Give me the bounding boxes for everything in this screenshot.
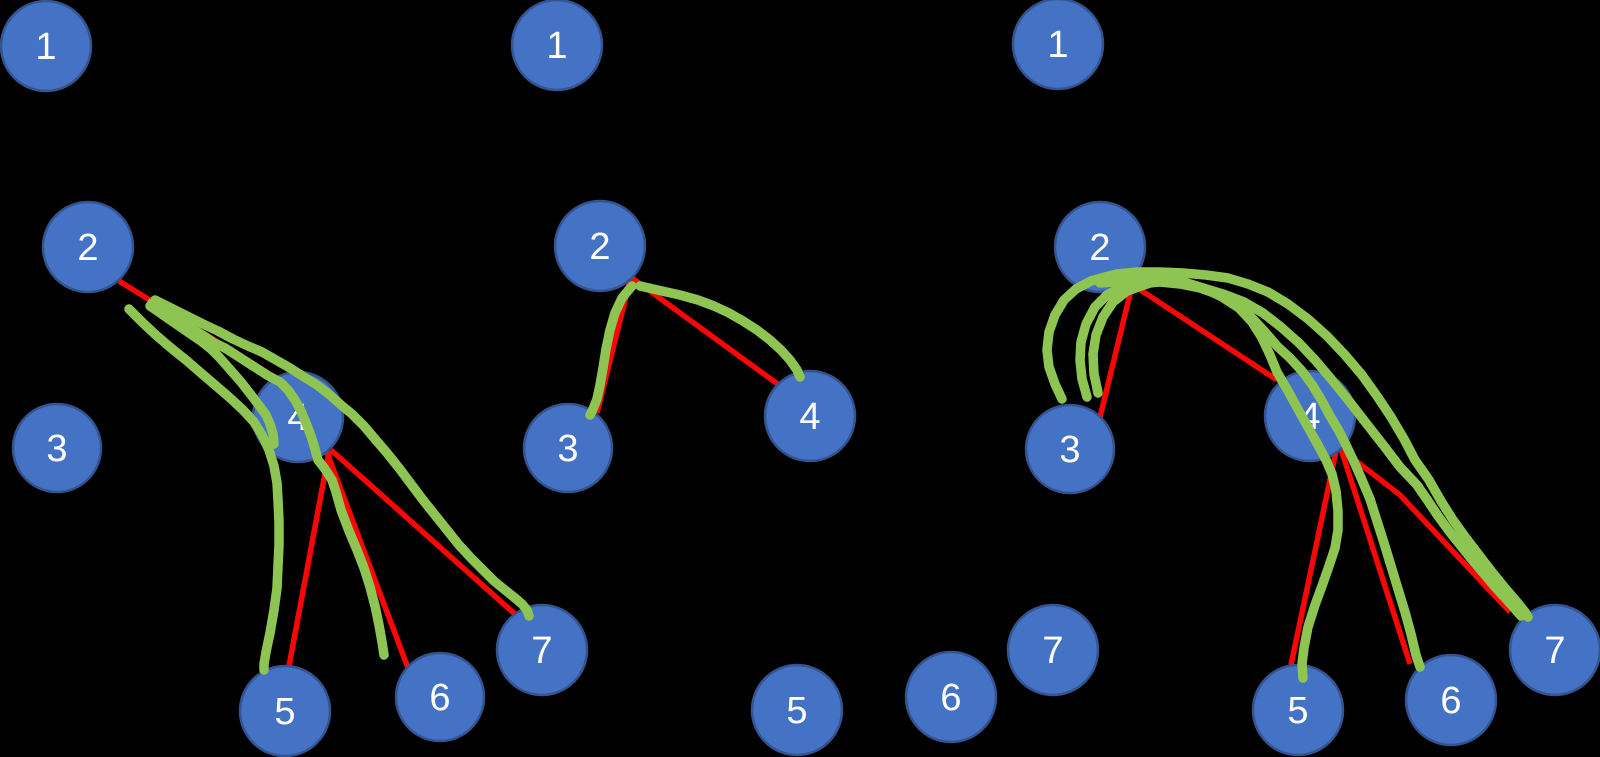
svg-text:5: 5 [786,690,807,732]
ink stroke S7b right (band to 7, inner) [1100,280,1521,616]
svg-text:6: 6 [940,677,961,719]
ink stroke Q0 left (2 toward 4, short fork) [150,306,274,444]
ink stroke Q2 left (2 to 7) [155,300,529,616]
svg-text:6: 6 [429,677,450,719]
svg-text:2: 2 [1089,227,1110,269]
ink stroke S6 right (3 over 2 to 6) [1080,282,1420,667]
svg-text:3: 3 [1059,429,1080,471]
node 6 right [1406,655,1496,745]
ink stroke S7a right (3 over 2 to 7, outer) [1047,272,1528,617]
svg-text:7: 7 [1042,630,1063,672]
node 4 left [253,372,343,462]
node 4 right [1265,371,1355,461]
svg-text:2: 2 [589,226,610,268]
ink stroke 2-4 middle [640,286,800,377]
svg-text:4: 4 [799,396,820,438]
edge 4-6 left (red) [326,450,408,668]
node 6 left [396,653,484,741]
node 3 right [1026,405,1114,493]
ink stroke P left (2 to 5) [129,309,279,670]
node 2 left [43,202,133,292]
ink stroke S5 right (3 over 2 to 5) [1093,281,1338,678]
node 5 right [1253,665,1343,755]
svg-text:5: 5 [1287,690,1308,732]
edge 2-4 middle (red) [628,275,779,385]
node 7 left [497,605,587,695]
node 5 left [240,666,330,756]
node 3 middle [524,404,612,492]
edge 4-7 right (red) [1342,450,1510,612]
node 1 middle [512,0,602,90]
edge 4-5 right (red) [1291,451,1336,665]
svg-text:3: 3 [46,428,67,470]
svg-text:2: 2 [77,227,98,269]
svg-text:6: 6 [1440,680,1461,722]
node 1 left [1,1,91,91]
edge 2-3 middle (red) [597,276,631,413]
svg-text:1: 1 [35,26,56,68]
ink stroke Q1 left (2 through 4, ends mid-air) [152,303,384,655]
edge 2-3 right (red) [1100,286,1132,417]
node 6 middle [906,652,996,742]
node 4 middle [765,371,855,461]
ink stroke 2-3 middle [590,286,632,415]
node 1 right [1013,0,1103,89]
svg-text:1: 1 [1047,24,1068,66]
node 5 middle [752,665,842,755]
svg-text:7: 7 [1544,630,1565,672]
svg-text:5: 5 [274,691,295,733]
edge 4-5 left (red) [289,452,329,666]
node 7 right [1510,605,1600,695]
node 7 middle [1008,605,1098,695]
edge 4-6 right (red) [1341,449,1410,664]
svg-text:1: 1 [546,25,567,67]
node 2 middle [555,201,645,291]
node 2 right [1055,202,1145,292]
svg-text:3: 3 [557,428,578,470]
node 3 left [13,404,101,492]
edge 2-4 right (red) [1136,287,1277,380]
svg-text:7: 7 [531,630,552,672]
edge 2-4 left (red) [119,281,268,373]
edge 4-7 left (red) [331,450,516,615]
